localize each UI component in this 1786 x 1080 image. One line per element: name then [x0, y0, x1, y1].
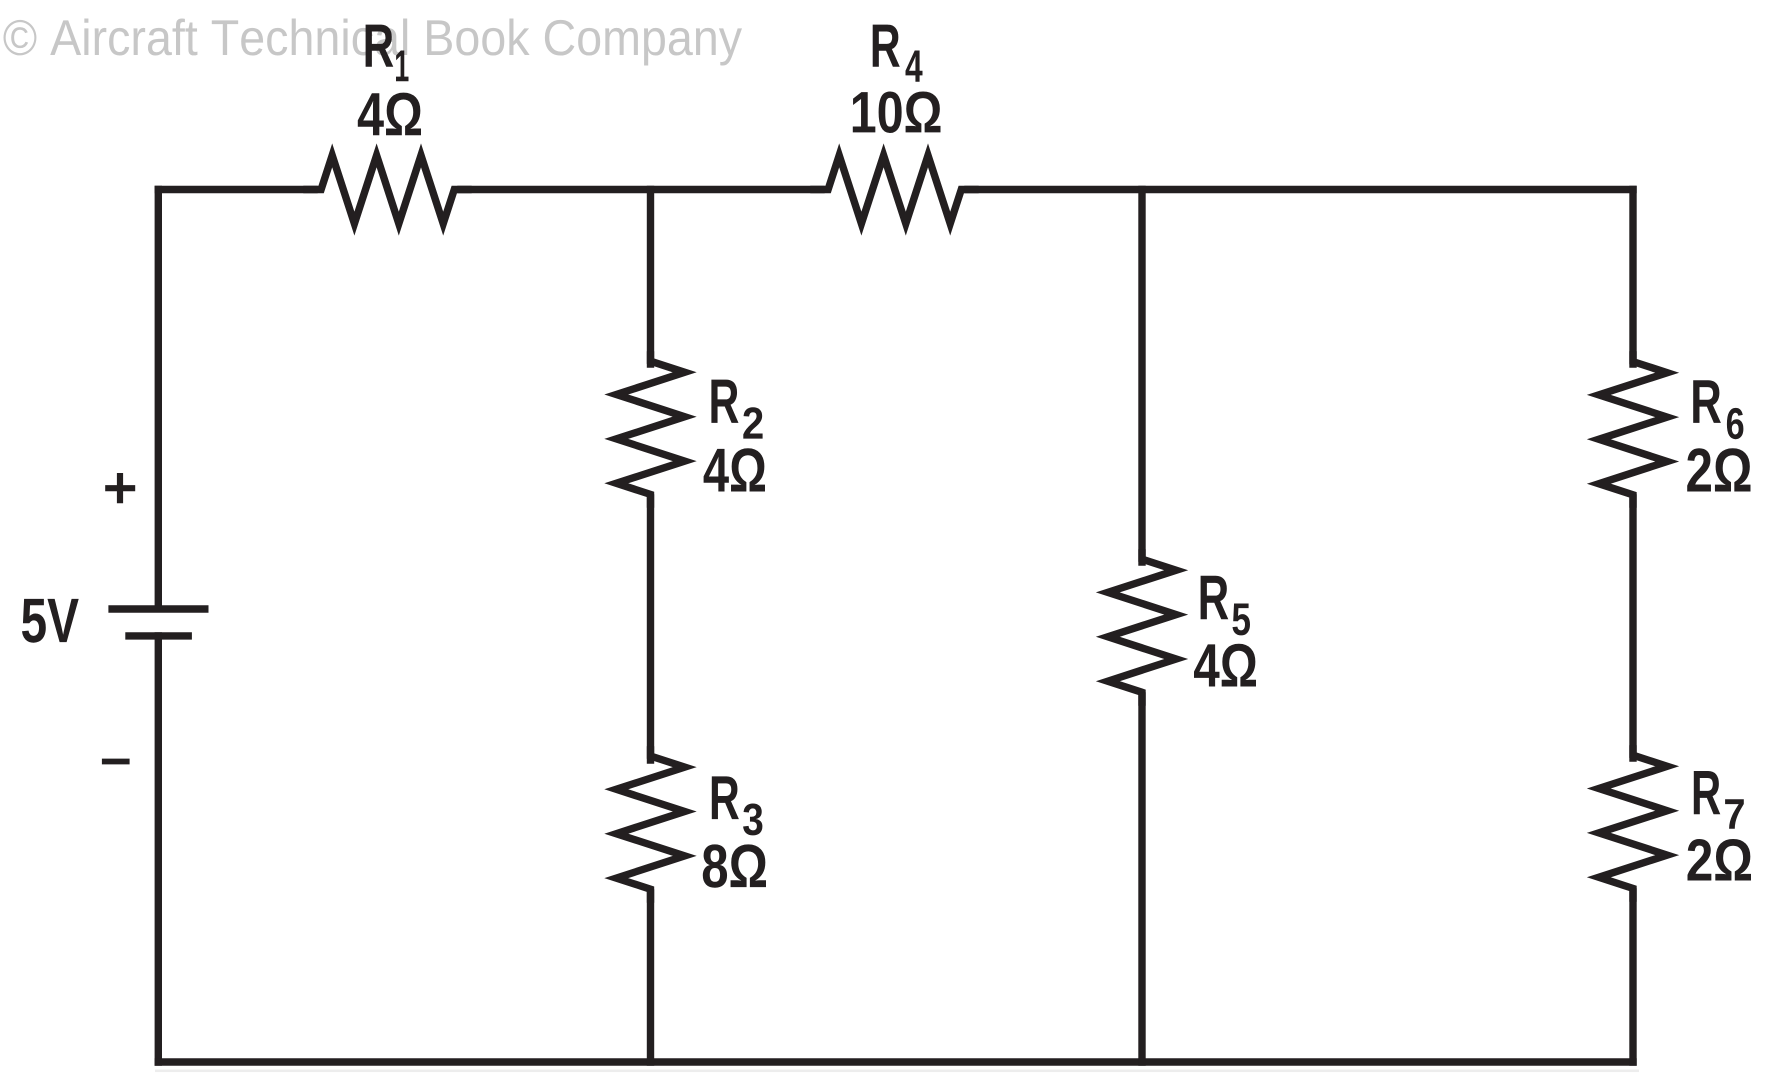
wire: left rail lower (battery - lead) [155, 636, 162, 1062]
label R1 [366, 25, 394, 67]
label R6 value 2 ohm [1687, 448, 1750, 491]
wire: top rail, battery+ to R1 [158, 186, 314, 193]
wire: right rail middle [1629, 498, 1636, 758]
label R6 subscript 6 [1727, 408, 1744, 439]
battery BT1 negative plate [125, 632, 192, 639]
resistor R6 (2 ohm) [1599, 355, 1667, 504]
label R5 value 4 ohm [1194, 644, 1256, 687]
wire: second branch lower (R5 to bottom rail) [1138, 696, 1145, 1062]
wire: middle branch between R2 and R3 [647, 498, 654, 760]
scan artifact line at bottom [155, 1070, 1639, 1073]
label R3 [712, 776, 739, 819]
wire: top rail, R4 to top-right corner (node B junction) [968, 186, 1633, 193]
watermark "(c) Aircraft Technical Book Company" [3, 18, 741, 65]
label R1 subscript 1 [396, 50, 408, 81]
label R4 subscript 4 [906, 51, 923, 82]
label 5V (battery value) [22, 599, 79, 643]
resistor R2 (4 ohm) [616, 355, 684, 504]
label R5 subscript 5 [1232, 604, 1250, 636]
wire: bottom rail [158, 1058, 1633, 1065]
label R7 subscript 7 [1725, 799, 1744, 829]
wire: second branch upper (node B to R5) [1138, 190, 1145, 563]
battery BT1 positive plate [108, 605, 208, 612]
label R3 subscript 3 [743, 803, 762, 835]
wire: top rail, R1 to R4 (node A junction) [461, 186, 821, 193]
resistor R5 (4 ohm) [1108, 553, 1176, 702]
polarity minus sign [102, 759, 130, 765]
wire: middle branch upper (node A to R2) [647, 190, 654, 365]
wire: middle branch lower (R3 to bottom rail) [647, 893, 654, 1062]
wire: left rail upper (battery + lead) [155, 190, 162, 607]
label R2 subscript 2 [743, 407, 762, 438]
polarity plus sign [105, 473, 135, 503]
resistor R7 (2 ohm) [1599, 749, 1667, 898]
label R2 [711, 380, 738, 423]
label R5 [1201, 576, 1229, 619]
resistor R3 (8 ohm) [616, 750, 684, 899]
wire: right rail upper [1629, 190, 1636, 365]
label R7 value 2 ohm [1688, 839, 1751, 881]
label R4 [873, 25, 900, 67]
label R2 value 4 ohm [704, 448, 765, 491]
label R7 [1694, 771, 1721, 814]
resistor R4 (10 ohm) [814, 155, 975, 223]
label R4 value 10 ohm [853, 91, 941, 133]
resistor R1 (4 ohm) [307, 155, 468, 223]
label R3 value 8 ohm [703, 844, 766, 887]
label R6 [1693, 380, 1721, 423]
label R1 value 4 ohm [358, 93, 421, 136]
wire: right rail lower [1629, 892, 1636, 1062]
